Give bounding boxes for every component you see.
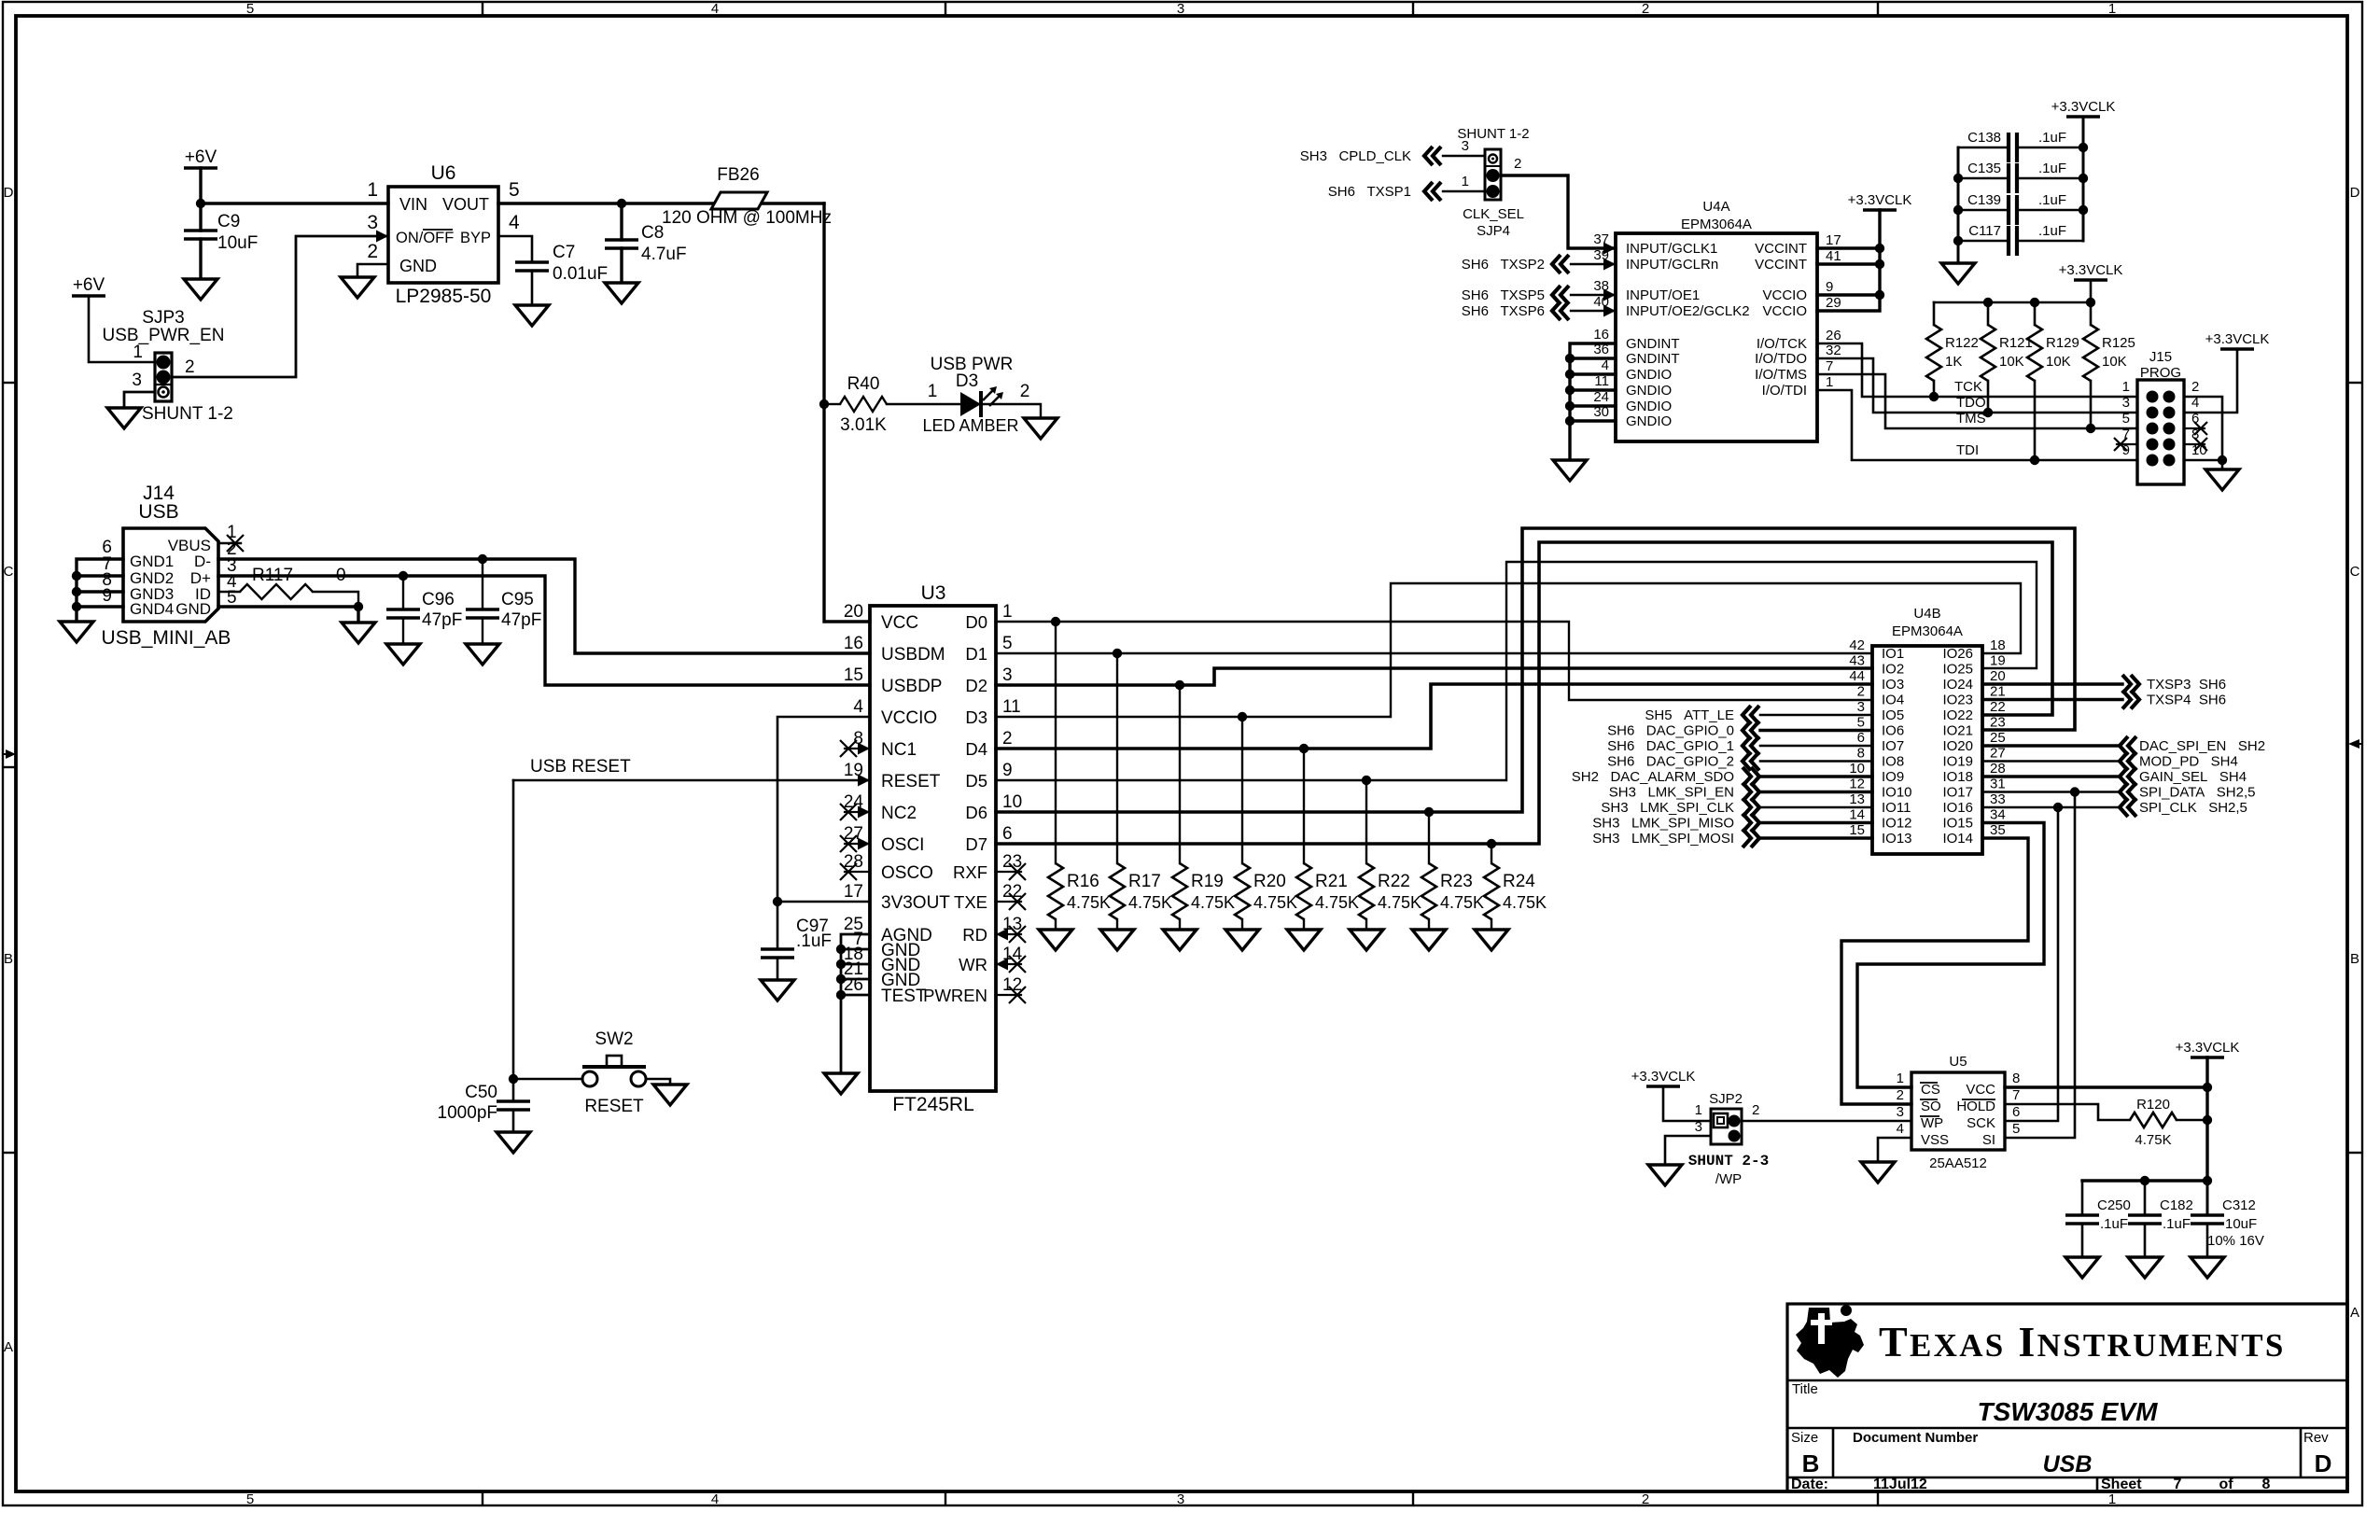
- svg-text:43: 43: [1849, 653, 1865, 669]
- svg-text:SPI_CLK SH2,5: SPI_CLK SH2,5: [2139, 800, 2247, 816]
- junction VCCIO 9: [1875, 290, 1884, 300]
- svg-text:D3: D3: [956, 371, 978, 391]
- svg-text:31: 31: [1990, 777, 2006, 792]
- wire C97 to ground: [777, 958, 779, 980]
- wire J14 GND3: [77, 590, 123, 593]
- wire D5 net to U4B IO25: [996, 562, 2037, 780]
- svg-text:SJP2: SJP2: [1709, 1091, 1743, 1107]
- junction R121/TDO: [1983, 408, 1993, 417]
- svg-text:9: 9: [1826, 279, 1833, 295]
- solder jumper SJP4 CLK_SEL: [1485, 149, 1501, 200]
- svg-text:4: 4: [509, 212, 520, 233]
- wire C96 to ground: [402, 618, 404, 644]
- svg-text:U4A: U4A: [1702, 199, 1729, 215]
- resistor R19: [1172, 863, 1187, 919]
- svg-text:D3: D3: [965, 707, 987, 727]
- svg-text:SH6 TXSP1: SH6 TXSP1: [1328, 184, 1411, 200]
- svg-text:10% 16V: 10% 16V: [2207, 1233, 2264, 1249]
- svg-text:1: 1: [367, 179, 378, 201]
- svg-text:IO16: IO16: [1942, 800, 1973, 816]
- svg-text:1: 1: [2108, 1491, 2116, 1507]
- svg-text:C50: C50: [465, 1083, 497, 1102]
- svg-text:2: 2: [1752, 1102, 1759, 1118]
- svg-text:5: 5: [1857, 715, 1865, 731]
- off-page connector TXSP3: [2122, 675, 2139, 693]
- off-page connector LMK_SPI_MOSI: [1743, 829, 1759, 847]
- svg-text:5: 5: [1002, 634, 1013, 653]
- svg-text:47pF: 47pF: [422, 610, 462, 630]
- capacitor C250: [2065, 1215, 2099, 1224]
- svg-text:4: 4: [853, 697, 863, 717]
- svg-text:6: 6: [1002, 824, 1013, 844]
- svg-text:+3.3VCLK: +3.3VCLK: [2051, 99, 2116, 115]
- svg-text:4.75K: 4.75K: [1253, 893, 1297, 912]
- wire U4A GND pin: [1570, 357, 1616, 359]
- junction C138 right: [2079, 143, 2088, 152]
- svg-text:4: 4: [711, 1491, 719, 1507]
- wire R129 top lead: [2034, 302, 2037, 325]
- svg-text:1: 1: [928, 382, 938, 401]
- svg-text:22: 22: [1990, 699, 2006, 715]
- U3 RD input arrow: [996, 929, 1008, 941]
- svg-text:1: 1: [2122, 379, 2130, 395]
- wire LMK_SPI_EN: [1760, 791, 1872, 793]
- svg-text:34: 34: [1990, 807, 2006, 823]
- svg-text:of: of: [2219, 1477, 2233, 1492]
- wire D4 net to U4B IO3: [996, 684, 1872, 749]
- svg-text:I/O/TMS: I/O/TMS: [1755, 367, 1807, 383]
- svg-text:C9: C9: [217, 212, 240, 231]
- wire R125 top lead: [2090, 302, 2093, 325]
- ground R21: [1287, 930, 1321, 950]
- svg-text:3: 3: [132, 371, 142, 390]
- svg-text:D7: D7: [965, 834, 987, 854]
- svg-text:1: 1: [2108, 1, 2116, 17]
- svg-text:R19: R19: [1191, 872, 1224, 891]
- U3 NC1 input arrow: [858, 743, 870, 755]
- svg-text:GNDIO: GNDIO: [1626, 367, 1672, 383]
- svg-text:PROG: PROG: [2140, 365, 2181, 381]
- resistor R40: [840, 397, 887, 412]
- svg-text:+6V: +6V: [73, 275, 105, 295]
- svg-text:OSCI: OSCI: [881, 835, 924, 855]
- wire R16 bottom lead: [1055, 919, 1057, 930]
- svg-text:U6: U6: [431, 162, 456, 184]
- svg-text:SO: SO: [1921, 1099, 1941, 1114]
- svg-text:R122: R122: [1945, 335, 1979, 351]
- wire C9 to ground: [199, 239, 202, 279]
- junction C135 left: [1953, 174, 1963, 183]
- svg-text:.1uF: .1uF: [2038, 223, 2066, 239]
- wire DAC_SPI_EN: [1982, 744, 2120, 747]
- wire C7 to ground: [531, 271, 534, 305]
- svg-text:2: 2: [1514, 156, 1521, 172]
- wire pullup bus lead: [2090, 280, 2093, 302]
- ground SW2: [653, 1085, 687, 1105]
- svg-text:R24: R24: [1503, 872, 1535, 891]
- off-page connector GAIN_SEL: [2120, 767, 2136, 786]
- no-connect X U3 OSCI: [840, 835, 857, 852]
- svg-text:LED AMBER: LED AMBER: [922, 416, 1018, 435]
- wire C95 lead: [482, 559, 483, 609]
- svg-text:23: 23: [1990, 715, 2006, 731]
- U3 OSCI stub: [845, 843, 870, 845]
- IC U3 FT245RL: [870, 606, 996, 1091]
- svg-text:SHUNT 2-3: SHUNT 2-3: [1688, 1153, 1769, 1169]
- svg-text:TDI: TDI: [1956, 442, 1979, 458]
- wire D1 net to U4B IO1: [996, 652, 1872, 654]
- U4A input arrow: [1603, 305, 1616, 317]
- svg-text:2: 2: [1897, 1087, 1904, 1103]
- junction C96 on D+: [399, 571, 408, 581]
- svg-text:J15: J15: [2149, 349, 2172, 365]
- svg-text:1: 1: [1695, 1102, 1702, 1118]
- wire C139 left lead: [1958, 209, 2009, 212]
- svg-text:WR: WR: [959, 955, 987, 974]
- wire U3 TEST: [841, 994, 870, 997]
- wire J15 pin8 stub: [2184, 443, 2205, 445]
- border center arrow left: [3, 753, 7, 755]
- svg-text:R125: R125: [2102, 335, 2135, 351]
- svg-text:1K: 1K: [1945, 354, 1962, 370]
- svg-text:IO22: IO22: [1942, 707, 1973, 723]
- power +3.3VCLK (J15): [2220, 347, 2254, 351]
- no-connect X U3 PWREN: [1009, 987, 1026, 1003]
- svg-text:RESET: RESET: [584, 1097, 644, 1116]
- svg-text:I/O/TDO: I/O/TDO: [1755, 351, 1807, 367]
- wire TXSP1 to SJP4 pin1: [1443, 190, 1485, 192]
- svg-text:USB: USB: [138, 501, 178, 523]
- svg-text:VOUT: VOUT: [442, 195, 489, 214]
- wire J14 GND2: [77, 574, 123, 577]
- svg-text:IO6: IO6: [1882, 723, 1904, 739]
- switch SW2 RESET: [582, 1071, 597, 1086]
- svg-text:+3.3VCLK: +3.3VCLK: [1631, 1069, 1696, 1085]
- wire +6V to SJP3 pin1: [89, 296, 155, 362]
- wire U3 AGND/GND bus: [841, 934, 870, 1073]
- svg-text:10K: 10K: [2102, 354, 2127, 370]
- junction R117/GND5: [354, 602, 363, 611]
- power +3.3VCLK (SJP2): [1646, 1085, 1680, 1088]
- svg-text:13: 13: [1849, 791, 1865, 807]
- off-page connector LMK_SPI_CLK: [1743, 798, 1759, 817]
- wire USBDP net (D+): [218, 576, 870, 685]
- svg-text:TEST: TEST: [881, 987, 927, 1006]
- svg-text:3.01K: 3.01K: [840, 415, 887, 435]
- svg-text:NC2: NC2: [881, 804, 917, 823]
- svg-text:7: 7: [1826, 358, 1833, 374]
- junction R125 top: [2086, 298, 2095, 307]
- junction GND7: [836, 945, 846, 954]
- svg-text:IO17: IO17: [1942, 785, 1973, 801]
- svg-text:3: 3: [367, 212, 378, 233]
- wire C117 left lead: [1958, 240, 2009, 243]
- svg-text:R120: R120: [2136, 1097, 2170, 1113]
- junction R120/+3.3VCLK: [2203, 1115, 2212, 1125]
- wire R125 bottom lead: [2090, 381, 2093, 428]
- capacitor C50: [497, 1101, 530, 1110]
- ground R16: [1039, 930, 1072, 950]
- capacitor C8: [605, 240, 638, 248]
- svg-text:TXE: TXE: [954, 892, 987, 912]
- wire C250 bottom lead: [2081, 1224, 2084, 1257]
- ground SJP2: [1648, 1165, 1682, 1185]
- svg-text:EPM3064A: EPM3064A: [1681, 217, 1752, 232]
- ground R22: [1350, 930, 1383, 950]
- svg-text:18: 18: [1990, 637, 2006, 653]
- junction C117 left: [1953, 236, 1963, 245]
- svg-text:16: 16: [844, 634, 863, 653]
- svg-text:D6: D6: [965, 803, 987, 822]
- svg-text:IO11: IO11: [1882, 800, 1911, 816]
- power +6V (C9): [184, 166, 217, 170]
- wire cap bus: [2082, 1179, 2207, 1182]
- svg-text:TDO: TDO: [1956, 395, 1986, 411]
- ferrite bead FB26: [711, 192, 767, 209]
- svg-text:IO19: IO19: [1942, 754, 1973, 770]
- U3 WR stub: [996, 963, 1021, 965]
- svg-text:4.75K: 4.75K: [1315, 893, 1359, 912]
- resistor R117: [240, 584, 313, 599]
- ground J15: [2205, 469, 2239, 490]
- border row ticks right: [2347, 382, 2362, 384]
- svg-text:4.75K: 4.75K: [1440, 893, 1484, 912]
- svg-text:VCC: VCC: [1966, 1082, 1995, 1098]
- junction VCCINT 17: [1875, 244, 1884, 253]
- wire GAIN_SEL: [1982, 775, 2120, 777]
- resistor R125: [2083, 325, 2098, 381]
- svg-text:I/O/TDI: I/O/TDI: [1762, 383, 1807, 399]
- power +6V (SJP3): [72, 294, 105, 298]
- off-page connector CPLD_CLK: [1424, 147, 1441, 165]
- svg-text:BYP: BYP: [460, 230, 491, 246]
- svg-text:15: 15: [1849, 822, 1865, 838]
- svg-text:IO5: IO5: [1882, 707, 1904, 723]
- junction C182: [2140, 1176, 2149, 1185]
- wire SJP3 pin3 to ground: [124, 392, 155, 408]
- resistor R21: [1296, 863, 1311, 919]
- wire +3.3VCLK to SJP2 pin1: [1663, 1086, 1711, 1121]
- wire LMK_SPI_CLK: [1760, 806, 1872, 809]
- svg-text:5: 5: [246, 1, 254, 17]
- wire C138 right lead: [2017, 147, 2083, 149]
- svg-text:R129: R129: [2046, 335, 2079, 351]
- connector J14 USB_MINI_AB: [123, 528, 218, 622]
- ground C50: [497, 1132, 530, 1153]
- svg-text:SCK: SCK: [1967, 1115, 1995, 1131]
- svg-text:D5: D5: [965, 771, 987, 791]
- junction GND21: [836, 974, 846, 984]
- wire TXSP3: [1982, 682, 2122, 685]
- off-page connector DAC_SPI_EN: [2120, 736, 2136, 755]
- wire R19 top lead: [1179, 685, 1181, 863]
- ground C97: [761, 980, 794, 1001]
- junction R40 tap: [819, 399, 829, 409]
- wire R22 top lead: [1365, 780, 1367, 863]
- svg-text:TMS: TMS: [1956, 411, 1986, 427]
- svg-text:4.75K: 4.75K: [1128, 893, 1172, 912]
- svg-text:SH6 TXSP6: SH6 TXSP6: [1462, 303, 1545, 319]
- svg-text:GNDIO: GNDIO: [1626, 399, 1672, 414]
- svg-text:12: 12: [1849, 777, 1865, 792]
- svg-text:4.75K: 4.75K: [1503, 893, 1547, 912]
- svg-text:.1uF: .1uF: [2038, 192, 2066, 208]
- wire C182 bottom lead: [2144, 1224, 2147, 1257]
- wire DAC_GPIO_2: [1760, 760, 1872, 763]
- junction GND bus 8: [72, 587, 81, 596]
- wire D7 net to U4B IO22: [996, 542, 2052, 844]
- svg-text:GNDIO: GNDIO: [1626, 383, 1672, 399]
- svg-text:D4: D4: [965, 739, 987, 759]
- svg-text:USB RESET: USB RESET: [530, 757, 631, 777]
- svg-text:VCCIO: VCCIO: [1762, 287, 1807, 303]
- wire SPI_DATA to U5 SI: [2005, 792, 2075, 1139]
- no-connect X U3 TXE: [1009, 893, 1026, 910]
- svg-text:USB_MINI_AB: USB_MINI_AB: [102, 627, 231, 649]
- svg-text:/WP: /WP: [1715, 1171, 1742, 1187]
- capacitor C7: [515, 262, 549, 271]
- svg-text:SH6 TXSP5: SH6 TXSP5: [1462, 287, 1545, 303]
- off-page connector SPI_DATA: [2120, 783, 2136, 802]
- svg-text:WP: WP: [1921, 1115, 1943, 1131]
- svg-text:SI: SI: [1982, 1132, 1995, 1148]
- svg-text:5: 5: [2122, 411, 2130, 427]
- wire C8 lead: [620, 203, 623, 240]
- svg-text:20: 20: [844, 602, 863, 622]
- wire VIN net: [201, 202, 388, 204]
- connector J15 PROG: [2137, 380, 2184, 484]
- svg-text:1: 1: [1462, 174, 1469, 189]
- IC U4A EPM3064A: [1616, 233, 1817, 441]
- junction R129/TDI: [2030, 455, 2039, 465]
- resistor R24: [1484, 863, 1499, 919]
- wire J14 GND4: [77, 605, 123, 608]
- svg-text:U3: U3: [921, 582, 946, 604]
- junction U4A GND bus: [1565, 416, 1575, 426]
- wire U4A GND pin: [1570, 388, 1616, 391]
- junction R19 on D2: [1175, 680, 1184, 690]
- svg-text:D2: D2: [965, 676, 987, 695]
- U3 WR input arrow: [996, 959, 1008, 971]
- junction R24 on D7: [1487, 839, 1496, 848]
- U3 RD stub: [996, 933, 1021, 935]
- junction R20 on D3: [1238, 712, 1247, 721]
- svg-text:GAIN_SEL SH4: GAIN_SEL SH4: [2139, 769, 2247, 785]
- wire C50 to ground: [512, 1110, 515, 1132]
- U3 NC1 stub: [845, 748, 870, 749]
- svg-text:Title: Title: [1792, 1381, 1818, 1397]
- svg-text:9: 9: [1002, 761, 1013, 780]
- ground U5: [1861, 1162, 1895, 1183]
- junction R23 on D6: [1424, 807, 1434, 817]
- wire R22 bottom lead: [1365, 919, 1367, 930]
- wire C117 right lead: [2017, 240, 2083, 243]
- resistor R129: [2027, 325, 2042, 381]
- junction +6V/VIN/C9: [196, 199, 205, 208]
- svg-text:0: 0: [336, 566, 346, 585]
- no-connect X U3 OSCO: [840, 863, 857, 880]
- wire VCC bus U4A: [1817, 210, 1880, 311]
- junction VOUT/C8: [617, 199, 626, 208]
- svg-text:SPI_DATA SH2,5: SPI_DATA SH2,5: [2139, 785, 2256, 801]
- wire J14 GND pin5 to ground: [218, 607, 358, 623]
- junction C135 right: [2079, 174, 2088, 183]
- svg-text:R117: R117: [252, 566, 293, 585]
- svg-text:TXSP3 SH6: TXSP3 SH6: [2147, 677, 2226, 693]
- svg-text:IO9: IO9: [1882, 769, 1904, 785]
- svg-text:FT245RL: FT245RL: [892, 1094, 974, 1115]
- svg-text:16: 16: [1593, 327, 1609, 343]
- svg-text:.1uF: .1uF: [2100, 1216, 2128, 1232]
- wire U3 GND21: [841, 978, 870, 981]
- svg-text:TCK: TCK: [1954, 379, 1982, 395]
- wire TDI net: [1817, 390, 2137, 460]
- ground U6: [341, 277, 374, 298]
- wire R121 bottom lead: [1987, 381, 1990, 413]
- wire C312 top lead: [2206, 1181, 2209, 1215]
- junction 3V3OUT: [773, 897, 782, 906]
- svg-text:41: 41: [1826, 248, 1841, 264]
- svg-text:VCCIO: VCCIO: [1762, 303, 1807, 319]
- wire R121 top lead: [1987, 302, 1990, 325]
- svg-text:IO1: IO1: [1882, 646, 1904, 662]
- svg-text:U4B: U4B: [1913, 606, 1940, 622]
- svg-text:1: 1: [133, 343, 143, 362]
- junction U4A GND bus: [1565, 385, 1575, 395]
- svg-text:A: A: [4, 1339, 13, 1355]
- wire CPLD_CLK to SJP4 pin3: [1443, 155, 1485, 157]
- svg-text:GNDIO: GNDIO: [1626, 413, 1672, 429]
- svg-text:GNDINT: GNDINT: [1626, 336, 1680, 352]
- svg-text:MOD_PD SH4: MOD_PD SH4: [2139, 754, 2238, 770]
- svg-text:R17: R17: [1128, 872, 1161, 891]
- resistor R122: [1926, 325, 1941, 381]
- no-connect X U3 WR: [1009, 956, 1026, 973]
- no-connect X U3 NC1: [840, 740, 857, 757]
- svg-text:GND1: GND1: [130, 553, 174, 570]
- U3 OSCO stub: [845, 871, 870, 873]
- svg-text:Size: Size: [1791, 1430, 1818, 1446]
- wire J14 GND bus left: [77, 559, 123, 622]
- wire DAC_GPIO_0: [1760, 729, 1872, 732]
- wire U4A GND pin: [1570, 419, 1616, 422]
- junction SPI_DATA: [2070, 787, 2079, 796]
- U3 OSCI input arrow: [858, 838, 870, 850]
- svg-text:INPUT/GCLK1: INPUT/GCLK1: [1626, 241, 1717, 257]
- svg-text:RXF: RXF: [953, 862, 987, 882]
- ground J14 shell: [60, 622, 93, 642]
- capacitor C312: [2191, 1215, 2224, 1224]
- svg-text:SH3 LMK_SPI_MOSI: SH3 LMK_SPI_MOSI: [1592, 831, 1734, 847]
- wire ID to R117: [218, 591, 240, 593]
- svg-text:4.75K: 4.75K: [1067, 893, 1111, 912]
- wire U6 GND pin to ground: [357, 264, 388, 277]
- svg-text:2: 2: [1642, 1, 1649, 17]
- svg-text:15: 15: [844, 665, 863, 685]
- capacitor C139: [2009, 195, 2017, 225]
- svg-text:29: 29: [1826, 295, 1841, 311]
- ground C96: [386, 644, 420, 665]
- svg-text:10: 10: [1002, 792, 1022, 812]
- ground D3: [1024, 418, 1057, 439]
- svg-text:21: 21: [1990, 684, 2006, 700]
- wire to SW2: [513, 1078, 582, 1081]
- svg-text:IO4: IO4: [1882, 693, 1904, 708]
- ground R19: [1163, 930, 1197, 950]
- svg-text:3: 3: [1857, 699, 1865, 715]
- svg-text:SJP3: SJP3: [142, 308, 184, 328]
- junction C95 on D-: [478, 554, 487, 564]
